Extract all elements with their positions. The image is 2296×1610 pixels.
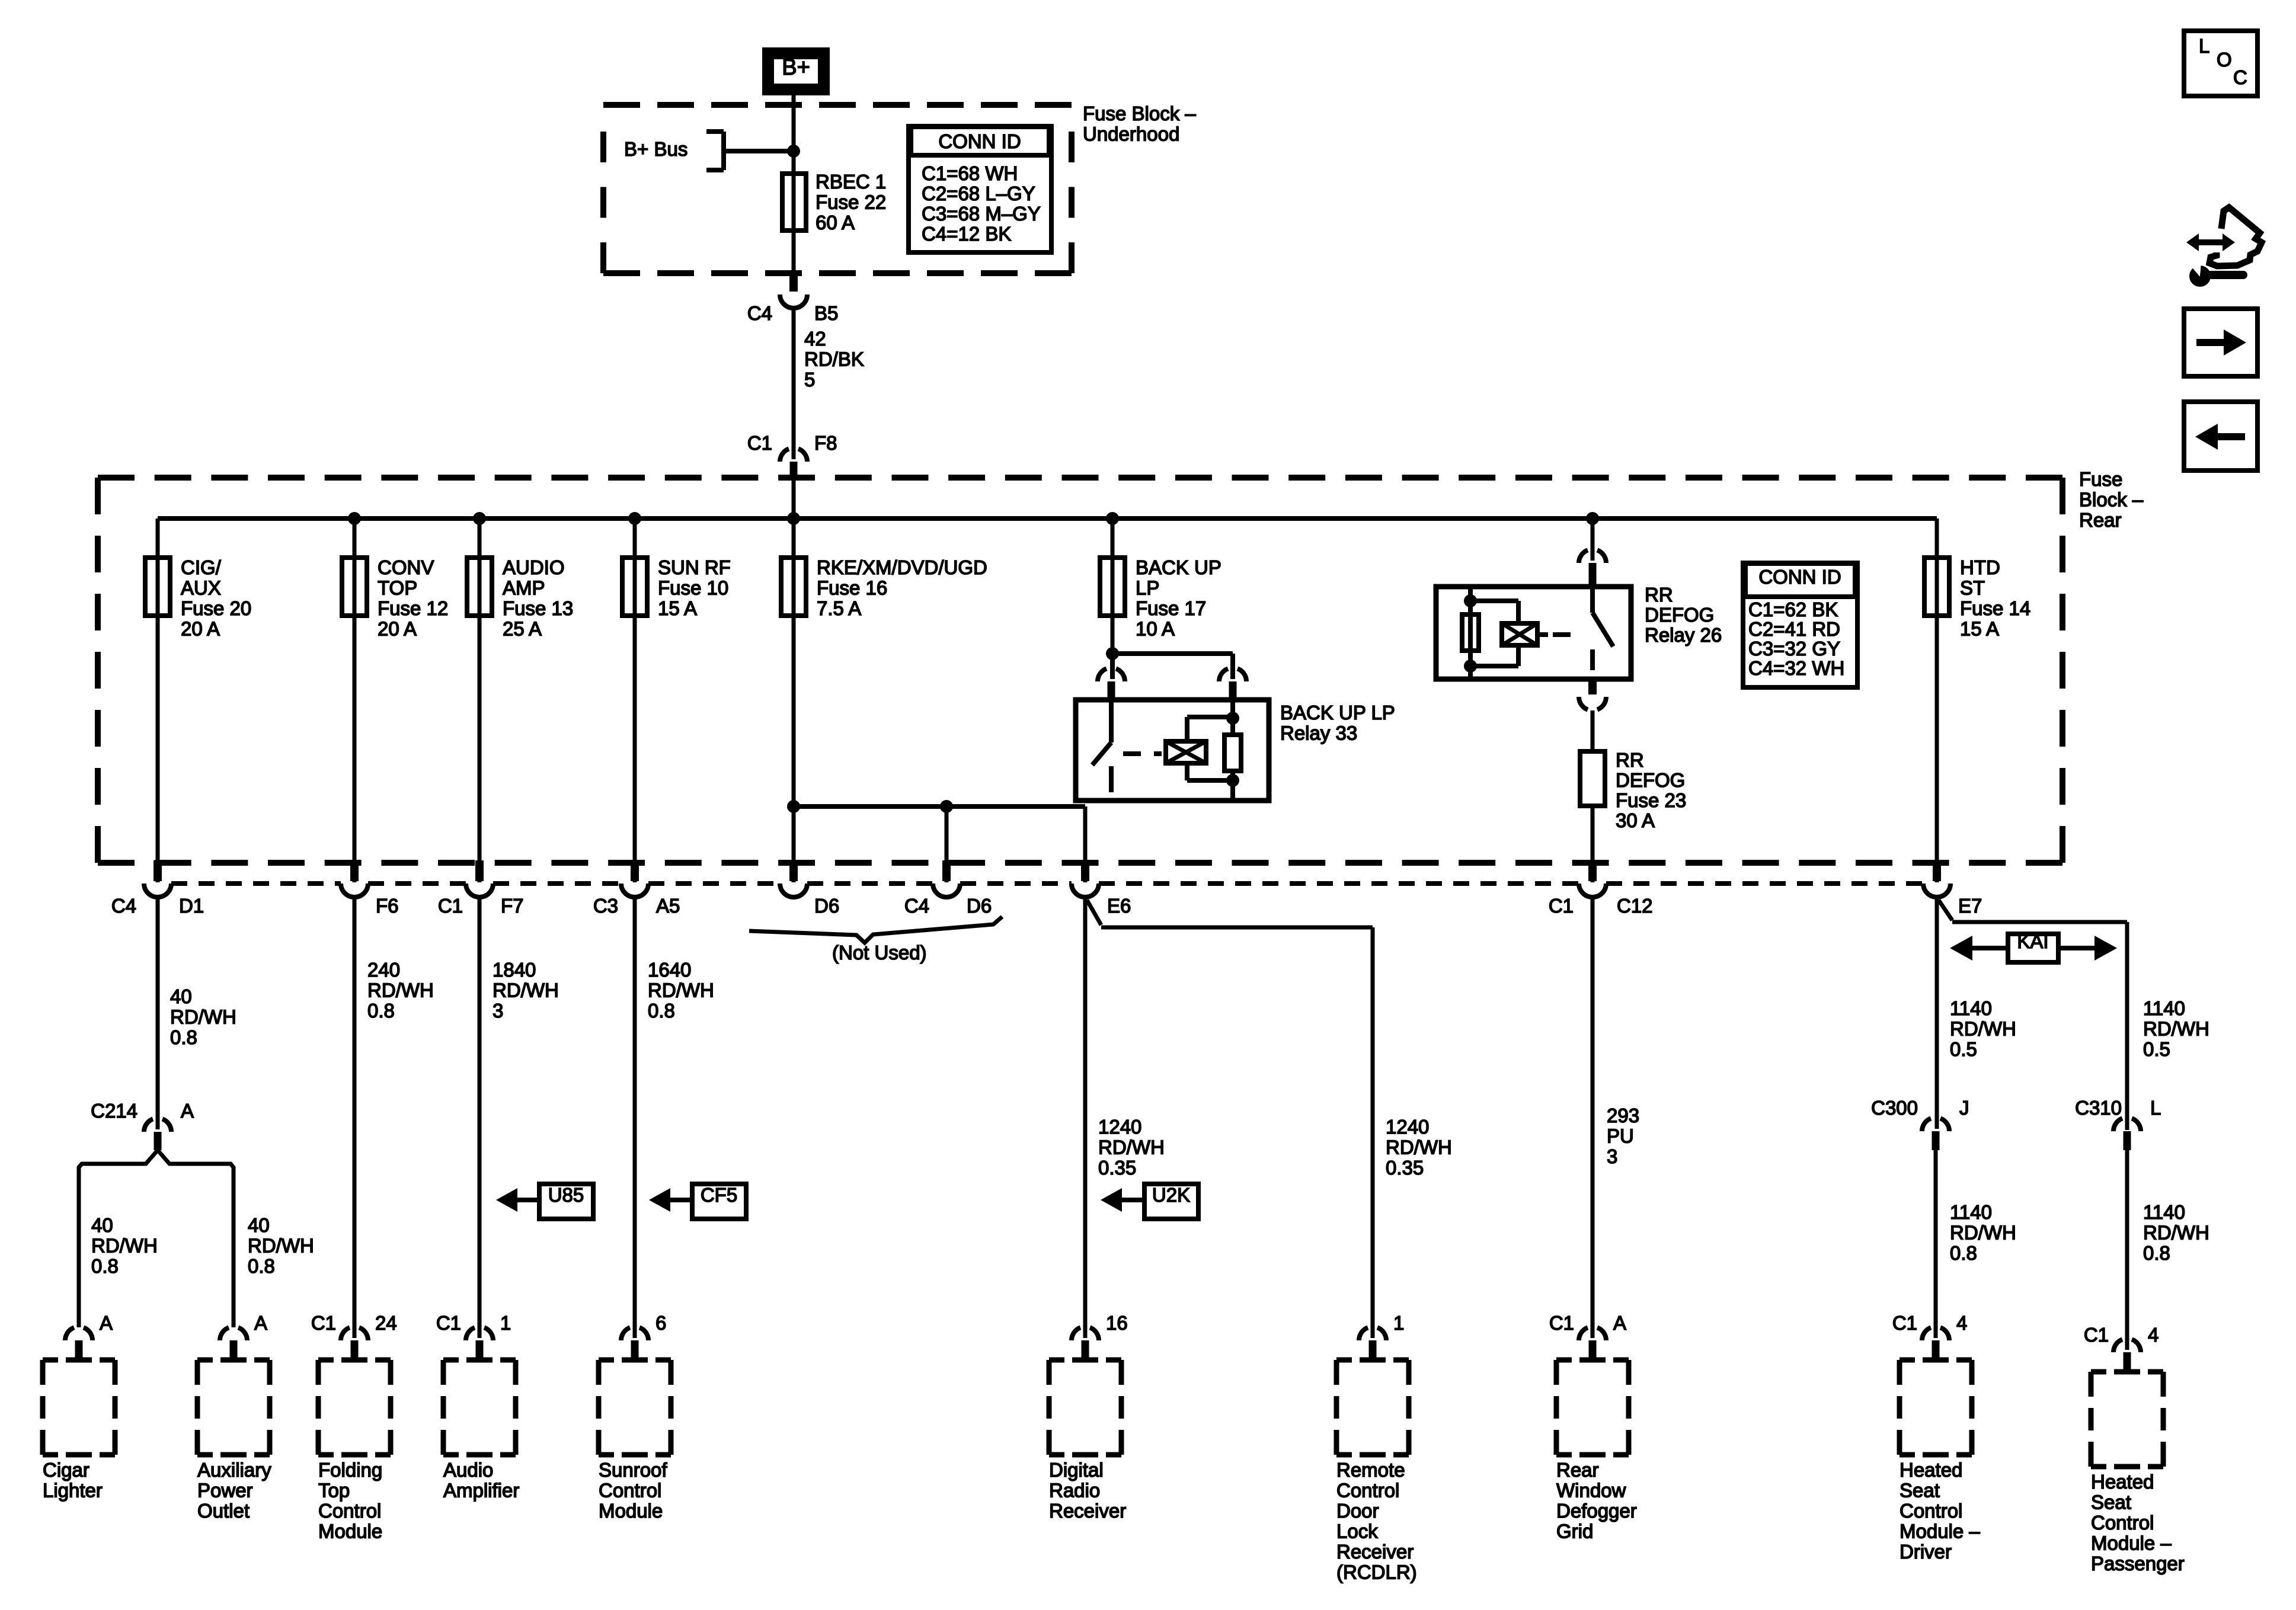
svg-text:Outlet: Outlet [197, 1500, 250, 1522]
svg-text:10 A: 10 A [1136, 618, 1175, 640]
svg-text:AUX: AUX [181, 577, 221, 599]
svg-text:Module: Module [599, 1500, 663, 1522]
svg-text:7.5 A: 7.5 A [817, 597, 861, 619]
svg-text:Module: Module [318, 1521, 382, 1542]
svg-text:RR: RR [1616, 749, 1644, 771]
svg-text:Seat: Seat [2091, 1491, 2131, 1513]
svg-text:Control: Control [599, 1480, 661, 1502]
svg-text:RD/WH: RD/WH [2143, 1222, 2209, 1244]
svg-text:D6: D6 [814, 895, 839, 917]
svg-text:Sunroof: Sunroof [599, 1459, 667, 1481]
svg-text:DEFOG: DEFOG [1645, 604, 1714, 626]
svg-text:1140: 1140 [1950, 997, 1992, 1019]
svg-text:RD/WH: RD/WH [367, 980, 434, 1001]
svg-text:16: 16 [1106, 1312, 1128, 1334]
svg-text:40: 40 [248, 1214, 270, 1236]
svg-text:C300: C300 [1871, 1097, 1918, 1119]
svg-text:RD/BK: RD/BK [804, 348, 864, 370]
svg-text:RD/WH: RD/WH [170, 1006, 236, 1028]
svg-text:RR: RR [1645, 584, 1673, 606]
svg-text:D6: D6 [967, 895, 992, 917]
svg-text:U2K: U2K [1152, 1184, 1190, 1206]
svg-text:Relay 33: Relay 33 [1280, 722, 1357, 744]
svg-text:3: 3 [493, 1000, 503, 1022]
svg-text:Fuse 20: Fuse 20 [181, 597, 251, 619]
svg-text:A: A [181, 1100, 194, 1122]
svg-text:1: 1 [1393, 1312, 1404, 1334]
svg-text:C2=41 RD: C2=41 RD [1748, 618, 1840, 640]
svg-text:C214: C214 [91, 1100, 137, 1122]
svg-text:Folding: Folding [318, 1459, 382, 1481]
svg-text:Control: Control [318, 1500, 381, 1522]
svg-text:4: 4 [1956, 1312, 1967, 1334]
svg-text:25 A: 25 A [503, 618, 542, 640]
svg-text:C1=62 BK: C1=62 BK [1748, 598, 1838, 620]
svg-text:Fuse 16: Fuse 16 [817, 577, 887, 599]
svg-text:Fuse 14: Fuse 14 [1960, 597, 2030, 619]
svg-text:Cigar: Cigar [43, 1459, 89, 1481]
svg-text:Relay 26: Relay 26 [1645, 624, 1722, 646]
svg-text:C1: C1 [311, 1312, 336, 1334]
svg-text:C4: C4 [904, 895, 929, 917]
svg-text:240: 240 [367, 959, 400, 981]
svg-text:Control: Control [1336, 1480, 1399, 1502]
svg-text:1240: 1240 [1098, 1116, 1141, 1138]
svg-text:A: A [1613, 1312, 1626, 1334]
svg-text:Grid: Grid [1556, 1521, 1593, 1542]
svg-text:Fuse 22: Fuse 22 [816, 191, 886, 213]
svg-text:Receiver: Receiver [1049, 1500, 1126, 1522]
svg-text:C1: C1 [438, 895, 463, 917]
svg-text:C310: C310 [2075, 1097, 2122, 1119]
svg-text:60 A: 60 A [816, 212, 855, 233]
svg-text:0.5: 0.5 [1950, 1038, 1977, 1060]
svg-text:RD/WH: RD/WH [91, 1235, 158, 1257]
svg-text:L: L [2150, 1097, 2161, 1119]
svg-text:Door: Door [1336, 1500, 1379, 1522]
svg-text:Fuse 23: Fuse 23 [1616, 789, 1686, 811]
svg-text:20 A: 20 A [181, 618, 220, 640]
svg-text:A: A [100, 1312, 113, 1334]
svg-text:0.8: 0.8 [367, 1000, 395, 1022]
svg-text:B5: B5 [814, 302, 838, 324]
svg-text:ST: ST [1960, 577, 1985, 599]
svg-text:RD/WH: RD/WH [648, 980, 714, 1001]
svg-text:KAI: KAI [2017, 930, 2048, 952]
svg-text:F8: F8 [814, 432, 837, 454]
svg-text:AMP: AMP [503, 577, 545, 599]
svg-text:Auxiliary: Auxiliary [197, 1459, 271, 1481]
svg-text:C3=68 M–GY: C3=68 M–GY [922, 203, 1041, 225]
svg-text:(Not Used): (Not Used) [832, 942, 927, 964]
svg-text:RD/WH: RD/WH [493, 980, 559, 1001]
svg-text:Audio: Audio [443, 1459, 493, 1481]
svg-text:C1: C1 [1892, 1312, 1917, 1334]
svg-text:C3: C3 [593, 895, 618, 917]
svg-text:0.8: 0.8 [2143, 1242, 2170, 1264]
svg-text:C4: C4 [111, 895, 136, 917]
svg-text:C: C [2233, 66, 2247, 88]
svg-text:C1: C1 [1549, 1312, 1574, 1334]
svg-text:Fuse 12: Fuse 12 [378, 597, 448, 619]
svg-text:Receiver: Receiver [1336, 1541, 1414, 1563]
svg-text:Window: Window [1556, 1480, 1626, 1502]
svg-text:A5: A5 [656, 895, 680, 917]
svg-text:C4=12 BK: C4=12 BK [922, 223, 1011, 245]
svg-text:Digital: Digital [1049, 1459, 1104, 1481]
svg-text:CONN ID: CONN ID [938, 130, 1021, 152]
svg-text:E7: E7 [1958, 895, 1982, 917]
svg-text:E6: E6 [1107, 895, 1131, 917]
svg-text:BACK UP: BACK UP [1136, 556, 1221, 578]
svg-text:Seat: Seat [1900, 1480, 1940, 1502]
svg-text:Block –: Block – [2079, 489, 2144, 511]
svg-text:TOP: TOP [378, 577, 417, 599]
svg-text:(RCDLR): (RCDLR) [1336, 1561, 1417, 1583]
svg-text:U85: U85 [548, 1184, 584, 1206]
svg-text:Fuse Block –: Fuse Block – [1083, 103, 1196, 124]
svg-text:Driver: Driver [1900, 1541, 1952, 1563]
svg-text:C1: C1 [1549, 895, 1574, 917]
svg-text:RD/WH: RD/WH [1950, 1018, 2016, 1040]
svg-text:Radio: Radio [1049, 1480, 1100, 1502]
svg-text:1840: 1840 [493, 959, 536, 981]
svg-text:C1=68 WH: C1=68 WH [922, 162, 1018, 184]
svg-text:1140: 1140 [2143, 997, 2185, 1019]
svg-text:42: 42 [804, 328, 826, 350]
svg-text:1640: 1640 [648, 959, 691, 981]
svg-text:3: 3 [1607, 1145, 1617, 1167]
svg-text:RD/WH: RD/WH [1098, 1137, 1165, 1158]
svg-text:0.8: 0.8 [91, 1255, 119, 1277]
svg-text:CONV: CONV [378, 556, 434, 578]
svg-text:C4: C4 [747, 302, 772, 324]
svg-text:293: 293 [1607, 1105, 1639, 1126]
svg-text:Lock: Lock [1336, 1521, 1378, 1542]
svg-text:40: 40 [91, 1214, 113, 1236]
svg-text:15 A: 15 A [658, 597, 697, 619]
svg-text:DEFOG: DEFOG [1616, 769, 1685, 791]
svg-text:5: 5 [804, 369, 815, 391]
svg-text:C12: C12 [1617, 895, 1653, 917]
svg-text:Fuse: Fuse [2079, 468, 2122, 490]
svg-text:Rear: Rear [2079, 509, 2122, 531]
svg-text:Power: Power [197, 1480, 253, 1502]
svg-text:Heated: Heated [2091, 1471, 2154, 1493]
svg-text:Control: Control [1900, 1500, 1962, 1522]
svg-text:LP: LP [1136, 577, 1159, 599]
svg-text:J: J [1959, 1097, 1969, 1119]
svg-text:0.8: 0.8 [170, 1026, 197, 1048]
svg-text:RD/WH: RD/WH [1386, 1137, 1452, 1158]
svg-text:0.35: 0.35 [1386, 1157, 1424, 1179]
svg-text:24: 24 [375, 1312, 397, 1334]
svg-text:F6: F6 [376, 895, 399, 917]
svg-text:15 A: 15 A [1960, 618, 1999, 640]
svg-text:B+ Bus: B+ Bus [624, 138, 687, 160]
svg-text:C4=32 WH: C4=32 WH [1748, 657, 1844, 679]
svg-text:Lighter: Lighter [43, 1480, 103, 1502]
svg-text:F7: F7 [501, 895, 524, 917]
svg-text:Fuse 17: Fuse 17 [1136, 597, 1206, 619]
svg-text:BACK UP LP: BACK UP LP [1280, 702, 1395, 724]
svg-text:Control: Control [2091, 1512, 2154, 1534]
svg-text:C1: C1 [747, 432, 772, 454]
svg-text:O: O [2217, 49, 2232, 71]
svg-text:Passenger: Passenger [2091, 1553, 2185, 1574]
svg-text:RBEC 1: RBEC 1 [816, 171, 886, 193]
svg-text:0.5: 0.5 [2143, 1038, 2170, 1060]
svg-text:4: 4 [2148, 1324, 2159, 1346]
svg-text:A: A [254, 1312, 267, 1334]
svg-text:RD/WH: RD/WH [1950, 1222, 2016, 1244]
svg-text:Top: Top [318, 1480, 350, 1502]
svg-text:RD/WH: RD/WH [248, 1235, 314, 1257]
svg-text:C1: C1 [436, 1312, 461, 1334]
svg-text:Defogger: Defogger [1556, 1500, 1637, 1522]
svg-text:Amplifier: Amplifier [443, 1480, 519, 1502]
svg-text:Fuse 13: Fuse 13 [503, 597, 573, 619]
svg-text:1140: 1140 [2143, 1201, 2185, 1223]
svg-text:6: 6 [655, 1312, 666, 1334]
svg-text:C1: C1 [2084, 1324, 2109, 1346]
svg-text:D1: D1 [179, 895, 204, 917]
svg-text:RD/WH: RD/WH [2143, 1018, 2209, 1040]
svg-text:SUN RF: SUN RF [658, 556, 731, 578]
svg-text:0.8: 0.8 [648, 1000, 675, 1022]
svg-text:30 A: 30 A [1616, 809, 1655, 831]
svg-text:Heated: Heated [1900, 1459, 1962, 1481]
svg-text:PU: PU [1607, 1125, 1634, 1147]
svg-text:Module –: Module – [2091, 1532, 2172, 1554]
svg-text:1: 1 [500, 1312, 511, 1334]
svg-text:Module –: Module – [1900, 1521, 1980, 1542]
svg-text:Remote: Remote [1336, 1459, 1405, 1481]
svg-text:HTD: HTD [1960, 556, 2000, 578]
svg-text:CIG/: CIG/ [181, 556, 222, 578]
svg-text:Fuse 10: Fuse 10 [658, 577, 728, 599]
svg-text:0.35: 0.35 [1098, 1157, 1136, 1179]
svg-text:Rear: Rear [1556, 1459, 1599, 1481]
svg-text:C3=32 GY: C3=32 GY [1748, 638, 1840, 660]
svg-text:CONN ID: CONN ID [1758, 566, 1841, 588]
svg-text:AUDIO: AUDIO [503, 556, 565, 578]
svg-text:C2=68 L–GY: C2=68 L–GY [922, 183, 1035, 204]
svg-text:L: L [2199, 35, 2209, 57]
svg-text:1140: 1140 [1950, 1201, 1992, 1223]
svg-text:0.8: 0.8 [248, 1255, 275, 1277]
svg-text:CF5: CF5 [701, 1184, 737, 1206]
svg-text:40: 40 [170, 985, 192, 1007]
svg-text:20 A: 20 A [378, 618, 417, 640]
svg-text:1240: 1240 [1386, 1116, 1429, 1138]
svg-text:0.8: 0.8 [1950, 1242, 1977, 1264]
svg-text:Underhood: Underhood [1083, 123, 1179, 145]
svg-text:RKE/XM/DVD/UGD: RKE/XM/DVD/UGD [817, 556, 987, 578]
svg-text:B+: B+ [782, 55, 810, 80]
